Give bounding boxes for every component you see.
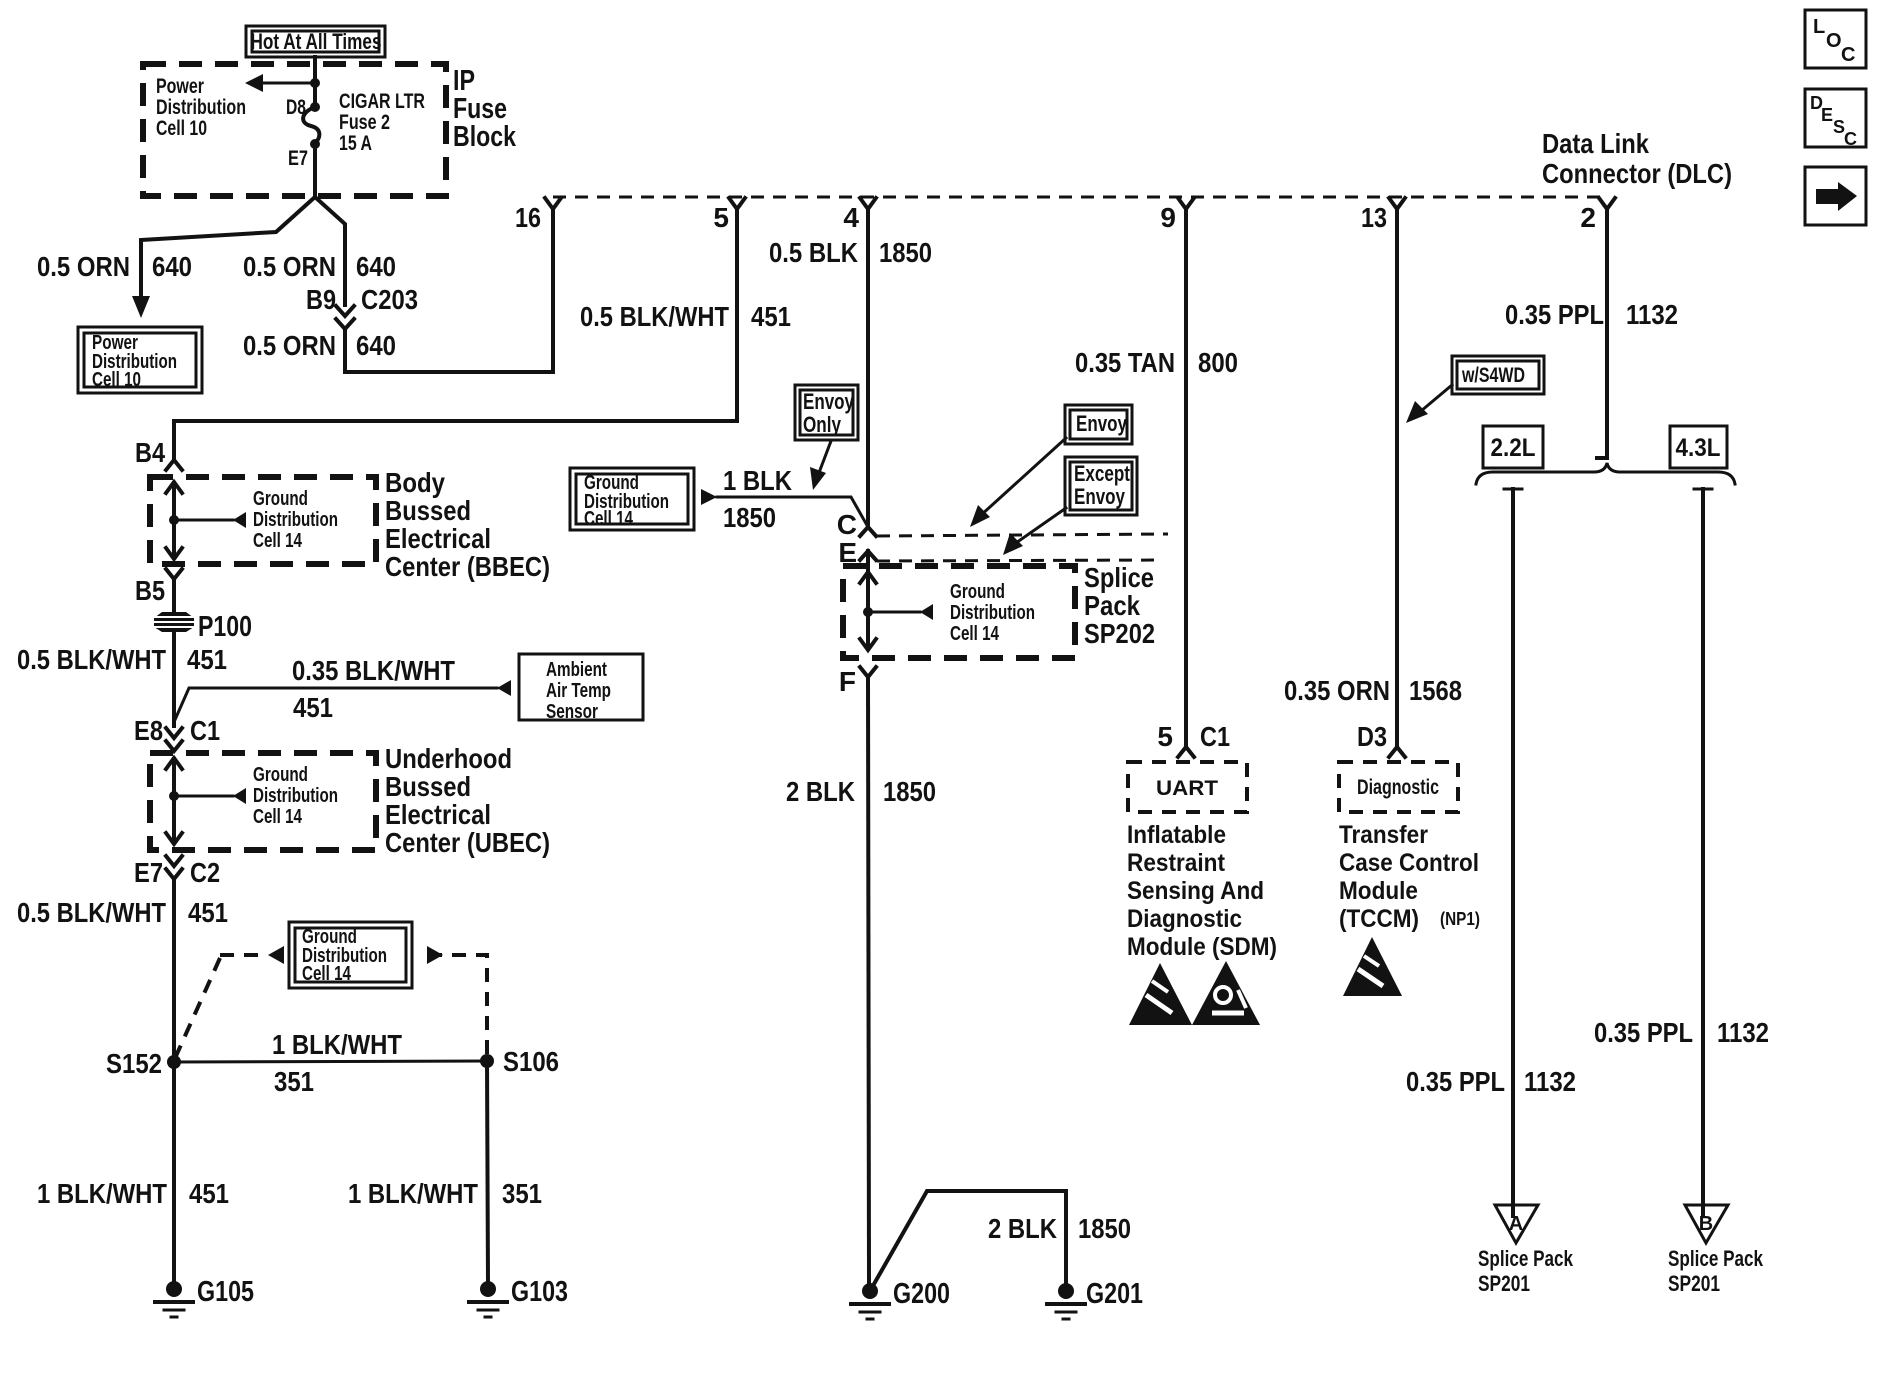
svg-text:F: F [839, 666, 856, 697]
node: SP202 dot [863, 607, 873, 617]
BBEC dashed box [150, 477, 376, 564]
wire: S152 to S106 [174, 1061, 487, 1062]
label: Power Distribution Cell 10 (in fuse block) [156, 75, 246, 140]
connector P100 grommet [154, 612, 194, 632]
connector C203 chevrons [336, 306, 354, 329]
wire: pin 13 down to TCCM [1395, 209, 1399, 747]
svg-text:16: 16 [515, 202, 541, 233]
svg-text:C1: C1 [1200, 721, 1230, 752]
label: 0.35 BLK/WHT 451 [292, 655, 455, 723]
svg-text:4.3L: 4.3L [1676, 434, 1721, 462]
svg-text:SP201: SP201 [1668, 1271, 1720, 1296]
label: 0.35 PPL 1132 (pin 2) [1505, 299, 1678, 330]
label: 0.5 ORN 640 (left branch) [37, 251, 192, 282]
svg-text:1132: 1132 [1626, 299, 1678, 330]
wire: left branch 0.5 ORN 640 [132, 197, 315, 318]
Ground Distribution Cell 14 box (1 BLK feed) [570, 468, 694, 530]
svg-text:Diagnostic: Diagnostic [1127, 905, 1242, 933]
svg-text:1 BLK/WHT: 1 BLK/WHT [37, 1178, 167, 1209]
svg-text:0.5 ORN: 0.5 ORN [37, 251, 130, 282]
icon: DESC page button [1805, 89, 1866, 149]
svg-text:451: 451 [293, 692, 333, 723]
wire: 0.35 BLK/WHT branch to ambient sensor [174, 680, 511, 722]
svg-text:S152: S152 [106, 1048, 162, 1079]
svg-text:9: 9 [1160, 202, 1176, 233]
svg-text:Distribution: Distribution [156, 96, 246, 119]
svg-text:5: 5 [1157, 721, 1173, 752]
svg-text:B4: B4 [135, 437, 165, 468]
label: Body Bussed Electrical Center (BBEC) [385, 467, 550, 582]
label: Splice Pack SP201 (B) [1668, 1246, 1764, 1296]
label: 0.35 TAN 800 [1075, 347, 1238, 378]
svg-text:Cell 10: Cell 10 [92, 369, 141, 391]
ground G201 [1047, 1278, 1143, 1319]
svg-text:2.2L: 2.2L [1491, 434, 1536, 462]
splice pack SP202 dashed box [843, 566, 1075, 658]
svg-text:5: 5 [713, 202, 729, 233]
svg-text:0.35 PPL: 0.35 PPL [1594, 1017, 1693, 1048]
svg-text:Transfer: Transfer [1339, 821, 1428, 849]
svg-text:Cell 14: Cell 14 [253, 806, 303, 828]
label: Underhood Bussed Electrical Center (UBEC) [385, 743, 550, 858]
node B4 connector [135, 421, 182, 470]
DLC pin 13 [1361, 198, 1405, 233]
arrow: Envoy Only to wire [810, 441, 831, 490]
svg-text:L: L [1813, 16, 1825, 38]
DLC pin 9 [1160, 198, 1194, 233]
svg-text:Underhood: Underhood [385, 743, 512, 774]
svg-text:Power: Power [156, 75, 204, 98]
wire: branch B (4.3L) [1694, 489, 1712, 1216]
label: 0.5 BLK/WHT 451 (above S152) [17, 897, 228, 928]
ground G105 [155, 1276, 254, 1317]
label: 0.35 PPL 1132 (branch A) [1406, 1066, 1576, 1097]
svg-text:351: 351 [502, 1178, 542, 1209]
svg-text:CIGAR LTR: CIGAR LTR [339, 90, 425, 113]
svg-text:Ground: Ground [950, 581, 1005, 603]
node B5 connector [135, 569, 182, 606]
label: 0.5 BLK 1850 (pin 4) [769, 237, 932, 268]
dashed link S152 to cell 14 box [176, 946, 284, 1056]
svg-text:451: 451 [751, 301, 791, 332]
pin D8 label [286, 96, 306, 119]
Envoy flag box [1065, 405, 1132, 444]
node S106 [480, 1046, 559, 1077]
svg-text:E: E [1821, 105, 1833, 125]
svg-text:Only: Only [803, 412, 842, 437]
svg-text:Electrical: Electrical [385, 523, 491, 554]
svg-text:0.5 BLK/WHT: 0.5 BLK/WHT [17, 644, 166, 675]
label: CIGAR LTR Fuse 2 15 A [339, 90, 425, 155]
svg-text:0.5 BLK: 0.5 BLK [769, 237, 858, 268]
label: Inflatable Restraint Sensing And Diagnostic Module (SDM) [1127, 821, 1277, 961]
svg-text:B: B [1699, 1213, 1713, 1235]
UBEC internal up arrow [166, 758, 182, 796]
svg-text:Distribution: Distribution [950, 602, 1035, 624]
wire: 1 BLK 1850 to node C [701, 489, 868, 527]
node F connector [839, 666, 876, 697]
svg-text:Sensor: Sensor [546, 701, 598, 723]
label: IP Fuse Block [453, 65, 517, 153]
ground G200 [851, 1278, 950, 1319]
svg-text:w/S4WD: w/S4WD [1461, 364, 1525, 387]
svg-text:1132: 1132 [1717, 1017, 1769, 1048]
wire from Hot At All Times to fuse block [313, 57, 317, 105]
wire: F down to G200 [868, 677, 869, 1285]
splice pack triangle A [1495, 1205, 1538, 1243]
arrow: w/S4WD to pin 13 wire [1406, 385, 1452, 423]
icon: ESD warning triangle 1 (SDM) [1129, 963, 1192, 1025]
svg-text:640: 640 [356, 330, 396, 361]
Except Envoy flag box [1065, 457, 1137, 515]
svg-text:Connector (DLC): Connector (DLC) [1542, 158, 1732, 189]
label: 1 BLK 1850 [723, 465, 792, 533]
svg-text:Bussed: Bussed [385, 771, 471, 802]
svg-text:0.35 ORN: 0.35 ORN [1284, 675, 1390, 706]
svg-text:Data Link: Data Link [1542, 128, 1649, 159]
ground G103 [469, 1276, 568, 1317]
wire: S106 down to G103 [487, 1061, 488, 1285]
svg-text:P100: P100 [198, 611, 252, 643]
UBEC dashed box [150, 753, 376, 850]
svg-text:Center (BBEC): Center (BBEC) [385, 551, 550, 582]
svg-text:Case Control: Case Control [1339, 849, 1479, 877]
wire: BBEC dot to reference arrow [174, 512, 246, 528]
DLC dashed connector line [553, 196, 1607, 199]
wire: UBEC dot to reference arrow [174, 788, 246, 804]
svg-text:Cell 14: Cell 14 [584, 508, 634, 530]
svg-text:S106: S106 [503, 1046, 559, 1077]
svg-text:1132: 1132 [1524, 1066, 1576, 1097]
icon: ESD warning triangle 3 (TCCM) [1343, 937, 1402, 996]
svg-text:1 BLK/WHT: 1 BLK/WHT [348, 1178, 478, 1209]
UART dashed box [1128, 762, 1247, 812]
label: Ground Distribution Cell 14 (SP202) [950, 581, 1035, 645]
wire: pin 16 down [551, 209, 555, 372]
label: 1 BLK/WHT 451 [37, 1178, 229, 1209]
dashed branch C [877, 534, 1168, 536]
label: 1 BLK/WHT 351 (S152-S106) [272, 1029, 402, 1097]
svg-text:Pack: Pack [1084, 590, 1140, 621]
SP202 internal up arrow [860, 572, 876, 612]
pin E7 label [288, 147, 308, 170]
svg-text:Block: Block [453, 121, 517, 153]
UBEC internal down arrow [166, 796, 182, 844]
label: 0.35 PPL 1132 (branch B) [1594, 1017, 1769, 1048]
svg-text:C1: C1 [190, 715, 220, 746]
label: 1 BLK/WHT 351 [348, 1178, 542, 1209]
svg-text:800: 800 [1198, 347, 1238, 378]
engine split brace [1476, 463, 1735, 484]
wire: G201 branch 2 BLK 1850 [874, 1191, 1066, 1285]
wire: E into splice pack [866, 551, 870, 572]
label: 0.5 ORN 640 (below C203) [243, 330, 396, 361]
BBEC internal up arrow [166, 482, 182, 520]
SP202 internal down arrow [860, 612, 876, 650]
svg-text:Except: Except [1074, 461, 1131, 486]
label: 2 BLK 1850 (F wire) [786, 776, 936, 807]
wire: pin 2 down to engine split [1597, 209, 1607, 458]
svg-text:0.5 BLK/WHT: 0.5 BLK/WHT [17, 897, 166, 928]
svg-text:C: C [1844, 129, 1857, 149]
svg-text:Fuse 2: Fuse 2 [339, 111, 390, 134]
svg-text:C: C [1841, 44, 1855, 66]
label: 2 BLK 1850 (G201 branch) [988, 1213, 1131, 1244]
svg-text:Bussed: Bussed [385, 495, 471, 526]
svg-text:1 BLK/WHT: 1 BLK/WHT [272, 1029, 402, 1060]
svg-text:Air Temp: Air Temp [546, 680, 611, 702]
svg-text:Cell 10: Cell 10 [156, 117, 207, 140]
svg-text:Restraint: Restraint [1127, 849, 1226, 877]
2.2L flag box [1483, 426, 1543, 468]
svg-text:Splice: Splice [1084, 562, 1154, 593]
label: 0.5 BLK/WHT 451 (above E8) [17, 644, 227, 675]
arrow: Except Envoy to branch E [1003, 508, 1066, 555]
wire: SP202 dot to reference arrow [868, 604, 933, 620]
svg-text:640: 640 [152, 251, 192, 282]
svg-text:451: 451 [189, 1178, 229, 1209]
svg-text:Distribution: Distribution [253, 509, 338, 531]
svg-text:G105: G105 [197, 1276, 254, 1308]
svg-text:Body: Body [385, 467, 445, 498]
label: Ground Distribution Cell 14 (BBEC) [253, 488, 338, 552]
svg-text:E7: E7 [288, 147, 308, 170]
DLC pin 16 [515, 198, 561, 233]
svg-text:1850: 1850 [723, 502, 776, 533]
Envoy Only flag box [795, 385, 858, 440]
svg-text:Cell 14: Cell 14 [950, 623, 1000, 645]
svg-text:Envoy: Envoy [803, 389, 855, 414]
arrow: Envoy to branch C [970, 438, 1066, 527]
svg-text:Diagnostic: Diagnostic [1357, 776, 1439, 799]
svg-text:0.5 ORN: 0.5 ORN [243, 330, 336, 361]
BBEC internal down arrow [166, 520, 182, 559]
svg-text:1850: 1850 [879, 237, 932, 268]
Ground Distribution Cell 14 reference box (S152/S106) [289, 922, 412, 988]
label P100 [198, 611, 252, 643]
wire: C203 down and right to DLC pin 16 [345, 329, 553, 372]
svg-text:E8: E8 [134, 715, 163, 746]
dashed branch E [877, 560, 1162, 561]
svg-text:Inflatable: Inflatable [1127, 821, 1226, 849]
wire: feed arrow to power distribution [245, 74, 315, 92]
wire: pin 4 down to C [866, 209, 870, 527]
svg-text:G103: G103 [511, 1276, 568, 1308]
svg-text:451: 451 [187, 644, 227, 675]
connector D3 at TCCM [1357, 721, 1405, 757]
svg-text:0.5 BLK/WHT: 0.5 BLK/WHT [580, 301, 729, 332]
svg-text:Ground: Ground [253, 764, 308, 786]
Ambient Air Temp Sensor box [519, 654, 643, 723]
node S152 [106, 1048, 181, 1079]
wire: right branch to C203 [315, 197, 345, 305]
svg-text:13: 13 [1361, 202, 1387, 233]
svg-text:640: 640 [356, 251, 396, 282]
icon: next page arrow button [1805, 167, 1866, 225]
DLC pin 5 [713, 198, 745, 233]
svg-text:Envoy: Envoy [1076, 411, 1128, 436]
svg-text:1 BLK: 1 BLK [723, 465, 792, 496]
svg-text:15 A: 15 A [339, 132, 372, 155]
svg-text:Ground: Ground [253, 488, 308, 510]
svg-text:Electrical: Electrical [385, 799, 491, 830]
svg-text:E7: E7 [134, 857, 163, 888]
w/S4WD flag box [1452, 356, 1544, 394]
svg-text:2 BLK: 2 BLK [988, 1213, 1057, 1244]
node E7 dot [310, 139, 320, 149]
svg-text:1850: 1850 [883, 776, 936, 807]
svg-text:G201: G201 [1086, 1278, 1143, 1310]
Power Distribution Cell 10 box (lower) [78, 327, 202, 393]
svg-text:Center (UBEC): Center (UBEC) [385, 827, 550, 858]
svg-text:0.5 ORN: 0.5 ORN [243, 251, 336, 282]
wire: pin 5 down and left to B4 rail [174, 209, 737, 421]
svg-text:G200: G200 [893, 1278, 950, 1310]
svg-text:Splice Pack: Splice Pack [1478, 1246, 1574, 1271]
Diagnostic dashed box [1339, 762, 1458, 812]
svg-text:SP201: SP201 [1478, 1271, 1530, 1296]
svg-text:C203: C203 [361, 284, 418, 315]
svg-text:SP202: SP202 [1084, 618, 1155, 649]
dashed link S106 to cell 14 box [427, 946, 487, 1055]
svg-text:2: 2 [1580, 202, 1596, 233]
svg-text:(NP1): (NP1) [1440, 909, 1480, 929]
svg-text:2 BLK: 2 BLK [786, 776, 855, 807]
node D8 dot [310, 102, 320, 112]
wire: E7 down to S152 [172, 879, 176, 1062]
svg-text:Sensing And: Sensing And [1127, 877, 1264, 905]
svg-text:C: C [837, 509, 857, 540]
node: feed junction dot [310, 78, 320, 88]
IP fuse block header: Hot At All Times box [246, 26, 385, 57]
label: Transfer Case Control Module (TCCM) (NP1) [1339, 821, 1480, 933]
svg-text:C2: C2 [190, 857, 220, 888]
node: UBEC dot [169, 791, 179, 801]
DLC pin 2 [1580, 198, 1615, 233]
wire: P100 down to E8 [172, 632, 176, 726]
connector C203 labels B9 C203 [306, 284, 418, 315]
4.3L flag box [1670, 426, 1727, 468]
fuse F2 CIGAR LTR 15A [303, 107, 319, 143]
connector 5/C1 at SDM [1157, 721, 1230, 757]
svg-text:Ambient: Ambient [546, 659, 607, 681]
DLC pin 4 [843, 198, 876, 233]
label: Splice Pack SP201 (A) [1478, 1246, 1574, 1296]
svg-text:(TCCM): (TCCM) [1339, 905, 1419, 933]
svg-text:Cell 14: Cell 14 [253, 530, 303, 552]
svg-text:1850: 1850 [1078, 1213, 1131, 1244]
node E connector [838, 537, 876, 568]
wire: B5 to P100 [172, 579, 176, 612]
svg-text:Hot At All Times: Hot At All Times [251, 29, 382, 54]
node: BBEC dot [169, 515, 179, 525]
label: 0.5 BLK/WHT 451 (pin 5 wire) [580, 301, 791, 332]
svg-text:UART: UART [1156, 777, 1218, 800]
svg-text:Module: Module [1339, 877, 1418, 905]
wire: E7 down to split [313, 144, 317, 197]
node C connector [837, 509, 876, 540]
svg-text:451: 451 [188, 897, 228, 928]
svg-text:Module (SDM): Module (SDM) [1127, 933, 1277, 961]
label: Splice Pack SP202 [1084, 562, 1155, 649]
svg-text:D3: D3 [1357, 721, 1387, 752]
icon: LOC page button [1805, 10, 1866, 68]
svg-text:4: 4 [843, 202, 859, 233]
svg-text:A: A [1509, 1213, 1523, 1235]
label: Data Link Connector (DLC) [1542, 128, 1732, 189]
svg-text:0.35 TAN: 0.35 TAN [1075, 347, 1175, 378]
svg-text:Distribution: Distribution [253, 785, 338, 807]
connector E7/C2 [134, 856, 220, 888]
wire: S152 down to G105 [172, 1062, 176, 1285]
svg-text:351: 351 [274, 1066, 314, 1097]
svg-text:O: O [1826, 30, 1842, 52]
icon: ESD warning triangle 2 (SDM) [1192, 961, 1260, 1025]
svg-text:0.35 BLK/WHT: 0.35 BLK/WHT [292, 655, 455, 686]
splice pack triangle B [1685, 1205, 1728, 1243]
svg-text:B9: B9 [306, 284, 336, 315]
svg-text:Cell 14: Cell 14 [302, 963, 352, 985]
svg-text:Envoy: Envoy [1074, 484, 1126, 509]
wire: pin 9 down to SDM [1184, 209, 1188, 747]
svg-text:Splice Pack: Splice Pack [1668, 1246, 1764, 1271]
IP fuse block dashed box [143, 64, 446, 196]
label: Ground Distribution Cell 14 (UBEC) [253, 764, 338, 828]
svg-text:0.35 PPL: 0.35 PPL [1505, 299, 1604, 330]
connector E8/C1 [134, 715, 220, 751]
label: 0.5 ORN 640 (above C203) [243, 251, 396, 282]
svg-text:B5: B5 [135, 575, 165, 606]
wire: branch A (2.2L) [1504, 489, 1522, 1216]
label: 0.35 ORN 1568 [1284, 675, 1462, 706]
svg-text:0.35 PPL: 0.35 PPL [1406, 1066, 1505, 1097]
svg-text:1568: 1568 [1409, 675, 1462, 706]
